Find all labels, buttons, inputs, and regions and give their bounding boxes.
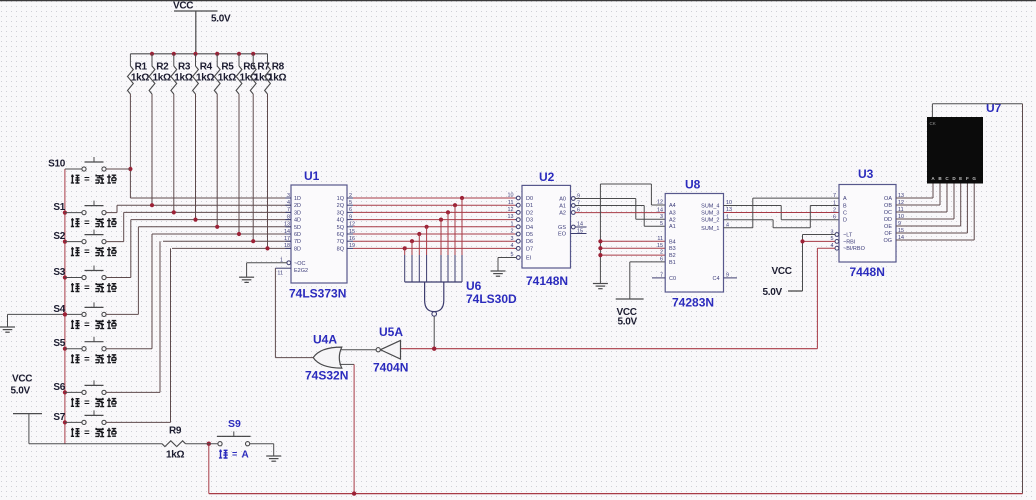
U8 pin 7 C0 stub bbox=[652, 277, 665, 279]
svg-text:U3: U3 bbox=[858, 167, 874, 181]
svg-text:1kΩ: 1kΩ bbox=[166, 450, 185, 461]
U2 pin 15 EO bbox=[558, 228, 586, 237]
wire bus row 3 U1 to U2 bbox=[353, 211, 515, 213]
svg-text:14: 14 bbox=[657, 207, 663, 213]
svg-text:EO: EO bbox=[558, 232, 567, 238]
svg-text:1kΩ: 1kΩ bbox=[131, 73, 150, 84]
U8 pin 2 (B2) bbox=[660, 250, 676, 259]
svg-text:=: = bbox=[84, 174, 90, 185]
wire U6 output to U3 ~BI/RBO bbox=[401, 248, 818, 349]
U3 pin 5 (~RBI) bbox=[831, 236, 856, 245]
svg-text:SUM_2: SUM_2 bbox=[701, 218, 719, 224]
svg-text:VCC: VCC bbox=[173, 1, 193, 12]
svg-text:D1: D1 bbox=[526, 203, 533, 209]
op-amp U6 74LS30D 8-input NAND gate bbox=[405, 279, 517, 349]
wire column R6 down bbox=[238, 94, 240, 234]
svg-text:13: 13 bbox=[508, 214, 514, 220]
svg-text:A1: A1 bbox=[559, 204, 566, 210]
svg-text:D7: D7 bbox=[526, 246, 533, 252]
svg-text:15: 15 bbox=[657, 243, 663, 249]
U8 pin 7 (C0) bbox=[660, 273, 676, 282]
svg-text:D6: D6 bbox=[526, 239, 533, 245]
svg-text:3: 3 bbox=[287, 193, 290, 199]
svg-text:E: E bbox=[959, 176, 962, 181]
svg-text:OB: OB bbox=[884, 203, 892, 209]
svg-text:5.0V: 5.0V bbox=[11, 386, 31, 397]
svg-text:12: 12 bbox=[657, 200, 663, 206]
U3 pin 11 (OC) bbox=[884, 207, 904, 216]
power VCC mid (to U8 B1) bbox=[616, 262, 666, 328]
wire column R2 down bbox=[151, 94, 153, 205]
U2 pin 3 (D6) bbox=[511, 236, 534, 245]
node dots bus taps to U6 bbox=[403, 196, 465, 251]
wire U3 OF to display bbox=[896, 184, 967, 234]
svg-text:5.0V: 5.0V bbox=[763, 287, 783, 298]
node junctions on VCC bus bbox=[150, 52, 255, 56]
svg-text:SUM_4: SUM_4 bbox=[701, 204, 719, 210]
U2 pin 7 (A1) bbox=[559, 200, 580, 209]
U3 pin 3 (~LT) bbox=[831, 229, 853, 238]
svg-text:B1: B1 bbox=[669, 260, 676, 266]
wire tap row 2 down to U6 bbox=[454, 205, 456, 282]
wire input row 1 to U1 bbox=[130, 197, 291, 199]
wire S9 right to ground bbox=[250, 444, 282, 462]
svg-text:1kΩ: 1kΩ bbox=[268, 73, 287, 84]
U8 pin 15 (B3) bbox=[657, 243, 676, 252]
svg-text:2Q: 2Q bbox=[337, 203, 345, 209]
U8 pin 6 (B1) bbox=[660, 257, 676, 266]
wire tap row 6 down to U6 bbox=[418, 234, 420, 282]
svg-text:=: = bbox=[84, 283, 90, 294]
switch S2 (key = space) bbox=[53, 230, 116, 258]
U1 pin 8 (4D) bbox=[285, 214, 301, 223]
svg-text:2: 2 bbox=[511, 229, 514, 235]
U8 pin 3 (A2) bbox=[660, 214, 676, 223]
svg-text:OD: OD bbox=[884, 217, 892, 223]
wire column R7 down bbox=[252, 94, 254, 241]
svg-text:VCC: VCC bbox=[772, 266, 792, 277]
op-amp U4A 74S32N OR gate (mirrored) bbox=[305, 333, 348, 383]
svg-text:7Q: 7Q bbox=[337, 239, 345, 245]
wire left switch bus bbox=[64, 169, 66, 444]
U3 pin 10 (OD) bbox=[884, 214, 904, 223]
U2 pin 10 (D0) bbox=[508, 193, 534, 202]
svg-text:B4: B4 bbox=[669, 239, 676, 245]
wire input row 8 to U1 bbox=[172, 247, 291, 249]
power VCC right (U3) bbox=[763, 266, 803, 298]
svg-text:9: 9 bbox=[349, 214, 352, 220]
svg-text:1kΩ: 1kΩ bbox=[174, 73, 193, 84]
svg-text:C0: C0 bbox=[669, 276, 676, 282]
svg-text:S9: S9 bbox=[228, 418, 241, 430]
svg-text:OA: OA bbox=[884, 196, 892, 202]
U8 pin 1 (SUM_2) bbox=[701, 214, 729, 223]
wire U5A output to U4A input bbox=[339, 349, 376, 351]
wire bus row 1 U1 to U2 bbox=[353, 197, 515, 199]
U2 pin 6 (A2) bbox=[559, 207, 580, 216]
wire input row 3 to U1 bbox=[124, 211, 291, 213]
svg-text:=: = bbox=[84, 398, 90, 409]
wire U3 ~BI/RBO from U6 net bbox=[817, 247, 835, 249]
wire U8 SUM_3 to U3 C bbox=[724, 212, 840, 214]
wire column R4 down bbox=[195, 94, 197, 220]
svg-text:74LS30D: 74LS30D bbox=[466, 292, 517, 306]
svg-text:12: 12 bbox=[508, 207, 514, 213]
U1 pin 4 (2D) bbox=[285, 200, 301, 209]
wire S10 right lead bbox=[106, 168, 130, 170]
U2 pin 9 (A0) bbox=[559, 193, 580, 202]
svg-text:=: = bbox=[84, 428, 90, 439]
wire U4A output to U1 pin11 bbox=[275, 357, 313, 359]
svg-text:OF: OF bbox=[884, 231, 892, 237]
wire S2 right lead bbox=[106, 212, 124, 241]
svg-text:A: A bbox=[843, 196, 847, 202]
svg-text:1kΩ: 1kΩ bbox=[153, 73, 172, 84]
U8 pin 14 (A3) bbox=[657, 207, 676, 216]
svg-text:13: 13 bbox=[284, 222, 290, 228]
U2 pin 2 (D5) bbox=[511, 229, 534, 238]
svg-text:B3: B3 bbox=[669, 246, 676, 252]
svg-text:14: 14 bbox=[284, 229, 290, 235]
svg-text:~RBI: ~RBI bbox=[843, 239, 856, 245]
resistor R5 1k&#937; bbox=[214, 54, 236, 94]
U3 pin 2 (C) bbox=[833, 207, 847, 216]
svg-text:VCC: VCC bbox=[12, 374, 32, 385]
svg-text:A3: A3 bbox=[669, 211, 676, 217]
U2 pin 1 (D4) bbox=[511, 221, 534, 230]
wire input row 5 to U1 bbox=[138, 226, 291, 228]
svg-text:A4: A4 bbox=[669, 203, 676, 209]
wire ground net to U8 A4/B4/B3/B2 bbox=[598, 184, 665, 284]
switch S1 (key = space) bbox=[53, 201, 116, 229]
svg-text:R5: R5 bbox=[221, 62, 234, 73]
U8 pin 5 (A1) bbox=[660, 221, 676, 230]
svg-text:B2: B2 bbox=[669, 253, 676, 259]
svg-text:1kΩ: 1kΩ bbox=[196, 73, 215, 84]
U1 pin 11 G bbox=[275, 268, 308, 277]
svg-text:7: 7 bbox=[833, 193, 836, 199]
svg-text:10: 10 bbox=[508, 193, 514, 199]
svg-text:6D: 6D bbox=[294, 232, 301, 238]
op-amp U5A 7404N inverter bbox=[373, 325, 408, 375]
ground under U8 B rows bbox=[593, 284, 608, 289]
U1 pin 2 (1Q) bbox=[337, 193, 353, 202]
svg-text:E2G2: E2G2 bbox=[294, 268, 308, 274]
resistor R9 1k&#937; bbox=[162, 426, 186, 461]
svg-text:74LS373N: 74LS373N bbox=[289, 287, 346, 301]
svg-text:=: = bbox=[84, 247, 90, 258]
svg-text:U1: U1 bbox=[304, 169, 320, 183]
svg-text:6: 6 bbox=[833, 215, 836, 221]
wire U1 pin11 down to U4A output bbox=[274, 268, 276, 357]
op-amp U8 74283N adder box bbox=[665, 178, 723, 310]
svg-text:D5: D5 bbox=[526, 232, 533, 238]
svg-text:R3: R3 bbox=[178, 62, 191, 73]
U3 pin 13 (OA) bbox=[884, 193, 904, 202]
U1 pin 12 (5Q) bbox=[337, 222, 355, 231]
svg-text:3: 3 bbox=[660, 214, 663, 220]
svg-text:17: 17 bbox=[284, 236, 290, 242]
svg-text:3Q: 3Q bbox=[337, 210, 345, 216]
svg-text:OE: OE bbox=[884, 224, 892, 230]
svg-text:OG: OG bbox=[883, 238, 892, 244]
wire bus row 7 U1 to U2 bbox=[353, 240, 515, 242]
resistor R2 1k&#937; bbox=[149, 54, 171, 94]
U3 pin 6 (D) bbox=[833, 215, 847, 224]
svg-text:D: D bbox=[843, 218, 847, 224]
svg-text:7448N: 7448N bbox=[850, 265, 885, 279]
wire tap row 5 down to U6 bbox=[426, 227, 428, 282]
U8 pin 9 C4 stub bbox=[724, 277, 738, 279]
U2 pin 14 GS bbox=[558, 222, 586, 231]
svg-text:1Q: 1Q bbox=[337, 196, 345, 202]
wire tap row 4 down to U6 bbox=[440, 220, 442, 282]
U1 pin 15 (6Q) bbox=[337, 229, 355, 238]
U3 pin 15 (OF) bbox=[884, 228, 904, 237]
svg-text:S2: S2 bbox=[53, 231, 65, 242]
svg-text:2: 2 bbox=[349, 193, 352, 199]
svg-text:5Q: 5Q bbox=[337, 225, 345, 231]
svg-text:D4: D4 bbox=[526, 225, 533, 231]
wire input row 4 to U1 bbox=[131, 219, 291, 221]
U1 pin 14 (6D) bbox=[284, 229, 301, 238]
svg-text:=: = bbox=[84, 320, 90, 331]
U2 pin 5 EI + ground bbox=[491, 252, 532, 276]
wire tap row 7 down to U6 bbox=[411, 241, 413, 282]
wire S1 right lead bbox=[106, 205, 117, 212]
svg-text:8Q: 8Q bbox=[337, 246, 345, 252]
U1 pin 18 (8D) bbox=[284, 243, 301, 252]
svg-text:5: 5 bbox=[349, 200, 352, 206]
U3 pin 7 (A) bbox=[833, 193, 847, 202]
U3 pin 12 (OB) bbox=[884, 200, 904, 209]
svg-text:4Q: 4Q bbox=[337, 218, 345, 224]
ground under U1 bbox=[239, 277, 254, 282]
svg-text:5.0V: 5.0V bbox=[211, 14, 231, 25]
U8 pin 9 (C4) bbox=[712, 273, 729, 282]
wire column R1 down bbox=[129, 94, 131, 198]
wire tap row 8 down to U6 bbox=[404, 248, 406, 282]
svg-text:7D: 7D bbox=[294, 239, 301, 245]
svg-text:SUM_1: SUM_1 bbox=[701, 226, 719, 232]
svg-text:U5A: U5A bbox=[379, 325, 403, 339]
svg-text:3D: 3D bbox=[294, 210, 301, 216]
svg-text:S3: S3 bbox=[53, 267, 65, 278]
wire bus row 8 U1 to U2 bbox=[353, 247, 515, 249]
wire U3 OA to display bbox=[896, 184, 933, 199]
switch S6 (key = space) bbox=[53, 380, 116, 408]
U1 pin 7 (3D) bbox=[285, 207, 301, 216]
svg-text:~OC: ~OC bbox=[294, 261, 305, 267]
wire column R8 down bbox=[267, 94, 269, 248]
wire S6 right lead bbox=[106, 241, 160, 392]
switch S5 (key = space) bbox=[53, 337, 116, 365]
switch S3 (key = space) bbox=[53, 266, 116, 294]
resistor R8 1k&#937; bbox=[265, 54, 287, 94]
svg-text:A2: A2 bbox=[559, 211, 566, 217]
wire U3 ~LT to VCC bbox=[803, 235, 835, 292]
svg-text:U2: U2 bbox=[539, 170, 555, 184]
resistor R3 1k&#937; bbox=[171, 54, 193, 94]
svg-text:4: 4 bbox=[511, 243, 514, 249]
wire U8 SUM_1 to U3 A bbox=[724, 198, 840, 228]
svg-text:4: 4 bbox=[287, 200, 290, 206]
wire S3 right lead bbox=[106, 220, 131, 278]
power VCC top (5.0V) bbox=[173, 1, 231, 54]
wire input row 7 to U1 bbox=[163, 240, 291, 242]
wire S5 right lead bbox=[106, 234, 152, 349]
U2 pin 12 (D2) bbox=[508, 207, 534, 216]
ground at S4 left bbox=[0, 312, 67, 332]
wire U3 OC to display bbox=[896, 184, 947, 213]
U1 pin 9 (4Q) bbox=[337, 214, 353, 223]
U3 pin 4 (~BI/RBO) bbox=[831, 243, 866, 252]
wire column R5 down bbox=[216, 94, 218, 227]
U3 pin 9 (OE) bbox=[884, 221, 901, 230]
switch S9 (key = A) bbox=[217, 418, 251, 461]
power VCC left (5.0V) bbox=[11, 374, 43, 444]
svg-text:8: 8 bbox=[287, 214, 290, 220]
svg-text:1: 1 bbox=[511, 221, 514, 227]
svg-text:A2: A2 bbox=[669, 217, 676, 223]
wire bus row 6 U1 to U2 bbox=[353, 233, 515, 235]
wire column R3 down bbox=[173, 94, 175, 212]
wire top VCC bus bbox=[130, 53, 267, 55]
svg-text:S7: S7 bbox=[53, 412, 65, 423]
U8 pin 4 (SUM_1) bbox=[701, 222, 729, 231]
switch S4 (key = space) bbox=[53, 302, 116, 330]
svg-text:B: B bbox=[843, 204, 847, 210]
wire U3 OG to display bbox=[896, 184, 974, 241]
node dots rows/resistor joints bbox=[128, 167, 269, 251]
svg-text:F: F bbox=[966, 176, 969, 181]
wire U2 A2 to U8 A3 bbox=[575, 212, 665, 214]
op-amp U1 74LS373N latch box bbox=[289, 169, 347, 301]
U2 pin 11 (D1) bbox=[508, 200, 533, 209]
resistor R7 1k&#937; bbox=[250, 54, 272, 94]
svg-text:6: 6 bbox=[660, 257, 663, 263]
svg-text:1kΩ: 1kΩ bbox=[218, 73, 237, 84]
svg-text:A0: A0 bbox=[559, 197, 566, 203]
U1 pin 13 (5D) bbox=[284, 222, 301, 231]
wire R9 to S9 bbox=[186, 443, 218, 445]
svg-text:14: 14 bbox=[577, 222, 583, 228]
svg-text:~LT: ~LT bbox=[843, 233, 853, 239]
switch S7 (key = space) bbox=[53, 410, 116, 438]
U1 pin 17 (7D) bbox=[284, 236, 301, 245]
wire U8 SUM_2 to U3 B bbox=[724, 206, 840, 228]
node U6 output junction bbox=[432, 347, 436, 351]
svg-text:74148N: 74148N bbox=[526, 274, 568, 288]
svg-text:=: = bbox=[84, 354, 90, 365]
svg-text:~BI/RBO: ~BI/RBO bbox=[843, 246, 866, 252]
wire tap row 3 down to U6 bbox=[447, 212, 449, 282]
svg-text:6: 6 bbox=[349, 207, 352, 213]
svg-text:U7: U7 bbox=[986, 101, 1002, 115]
svg-text:6Q: 6Q bbox=[337, 232, 345, 238]
svg-text:R4: R4 bbox=[200, 62, 213, 73]
U2 pin 13 (D3) bbox=[508, 214, 534, 223]
resistor R4 1k&#937; bbox=[193, 54, 215, 94]
svg-text:R9: R9 bbox=[169, 426, 182, 437]
op-amp U2 74148N encoder box bbox=[522, 170, 571, 288]
svg-text:5: 5 bbox=[660, 221, 663, 227]
wire U7 CK loop around right/bottom bbox=[209, 104, 1023, 494]
display U7 seven-segment block bbox=[927, 101, 1002, 184]
svg-text:S10: S10 bbox=[48, 159, 66, 170]
svg-text:5D: 5D bbox=[294, 225, 301, 231]
wire U1 ~OC to ground bbox=[247, 263, 287, 277]
wire U3 ~RBI to VCC stem bbox=[800, 239, 835, 243]
U1 pin 16 (7Q) bbox=[337, 236, 355, 245]
resistor R6 1k&#937; bbox=[236, 54, 258, 94]
svg-text:1D: 1D bbox=[294, 196, 301, 202]
svg-text:C4: C4 bbox=[712, 276, 719, 282]
wire bus row 2 U1 to U2 bbox=[353, 204, 515, 206]
svg-text:D3: D3 bbox=[526, 218, 533, 224]
svg-text:2D: 2D bbox=[294, 203, 301, 209]
U8 pin 10 (SUM_4) bbox=[701, 200, 732, 209]
svg-text:R1: R1 bbox=[135, 62, 148, 73]
wire U8 SUM_4 to U3 D bbox=[724, 206, 840, 220]
op-amp U3 7448N decoder box bbox=[839, 167, 896, 279]
svg-text:=: = bbox=[232, 449, 237, 459]
U2 pin 4 (D7) bbox=[511, 243, 534, 252]
wire U3 OE to display bbox=[896, 184, 961, 227]
svg-text:G: G bbox=[972, 176, 976, 181]
svg-text:GS: GS bbox=[558, 225, 566, 231]
U3 pin 14 (OG) bbox=[883, 235, 904, 244]
wire input row 2 to U1 bbox=[117, 204, 291, 206]
svg-text:D2: D2 bbox=[526, 210, 533, 216]
svg-text:15: 15 bbox=[577, 228, 583, 234]
wire input row 6 to U1 bbox=[152, 233, 291, 235]
svg-text:S1: S1 bbox=[53, 202, 65, 213]
svg-text:U8: U8 bbox=[685, 178, 701, 192]
U1 pin 5 (2Q) bbox=[337, 200, 353, 209]
svg-text:EI: EI bbox=[526, 256, 532, 262]
wire U2 A0 to U8 A2 bbox=[575, 199, 665, 220]
svg-text:11: 11 bbox=[657, 236, 663, 242]
svg-text:=: = bbox=[84, 218, 90, 229]
wire U3 OD to display bbox=[896, 184, 954, 220]
wire VCC to R9 bbox=[29, 443, 162, 445]
wire S4 right lead bbox=[106, 227, 138, 315]
svg-text:S6: S6 bbox=[53, 382, 65, 393]
svg-text:2: 2 bbox=[660, 250, 663, 256]
svg-text:U6: U6 bbox=[466, 279, 482, 293]
svg-text:5.0V: 5.0V bbox=[618, 317, 638, 328]
svg-text:R2: R2 bbox=[156, 62, 169, 73]
node dots on switch bus bbox=[63, 211, 67, 425]
svg-text:11: 11 bbox=[508, 200, 514, 206]
svg-text:74283N: 74283N bbox=[672, 296, 714, 310]
svg-text:4D: 4D bbox=[294, 218, 301, 224]
wire U2 A1 to U8 A1 bbox=[575, 206, 665, 227]
svg-text:3: 3 bbox=[511, 236, 514, 242]
svg-text:OC: OC bbox=[884, 210, 892, 216]
U8 pin 11 (B4) bbox=[657, 236, 675, 245]
wire bus row 4 U1 to U2 bbox=[353, 219, 515, 221]
U3 pin 1 (B) bbox=[833, 200, 847, 209]
U8 pin 13 (SUM_3) bbox=[701, 207, 732, 216]
resistor R1 1k&#937; bbox=[128, 54, 150, 94]
svg-text:R8: R8 bbox=[272, 62, 285, 73]
switch S10 (key = space) bbox=[48, 157, 116, 185]
U1 pin 19 (8Q) bbox=[337, 243, 355, 252]
wire tap row 1 down to U6 bbox=[461, 198, 463, 282]
svg-text:11: 11 bbox=[277, 271, 283, 277]
